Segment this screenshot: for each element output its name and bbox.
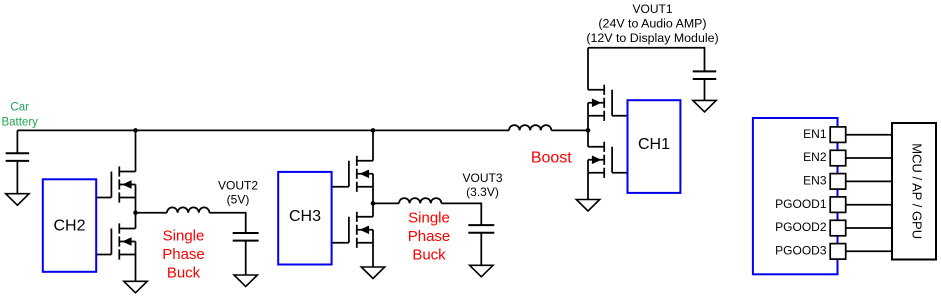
svg-text:CH2: CH2	[53, 217, 85, 234]
svg-text:PGOOD2: PGOOD2	[775, 220, 827, 234]
svg-text:Phase: Phase	[162, 246, 205, 263]
svg-text:Single: Single	[408, 209, 450, 226]
svg-text:CH3: CH3	[289, 208, 321, 225]
svg-text:(5V): (5V)	[227, 193, 250, 207]
svg-text:VOUT2: VOUT2	[218, 178, 258, 192]
svg-text:Boost: Boost	[531, 150, 572, 167]
svg-text:Buck: Buck	[167, 264, 201, 281]
svg-text:VOUT3: VOUT3	[462, 171, 502, 185]
svg-text:CH1: CH1	[638, 136, 670, 153]
svg-text:Car: Car	[10, 101, 29, 113]
svg-text:EN2: EN2	[803, 150, 827, 164]
svg-text:EN3: EN3	[803, 174, 827, 188]
svg-text:Single: Single	[163, 227, 205, 244]
svg-text:(3.3V): (3.3V)	[466, 185, 499, 199]
svg-text:VOUT1: VOUT1	[632, 2, 672, 16]
svg-text:(12V to Display Module): (12V to Display Module)	[586, 31, 718, 45]
svg-text:PGOOD3: PGOOD3	[775, 244, 827, 258]
svg-text:Phase: Phase	[408, 228, 451, 245]
svg-text:Battery: Battery	[1, 116, 38, 128]
svg-text:(24V to Audio AMP): (24V to Audio AMP)	[598, 16, 706, 30]
svg-text:PGOOD1: PGOOD1	[775, 197, 827, 211]
svg-text:EN1: EN1	[803, 127, 827, 141]
svg-text:MCU / AP / GPU: MCU / AP / GPU	[910, 143, 925, 239]
svg-text:Buck: Buck	[412, 247, 446, 264]
